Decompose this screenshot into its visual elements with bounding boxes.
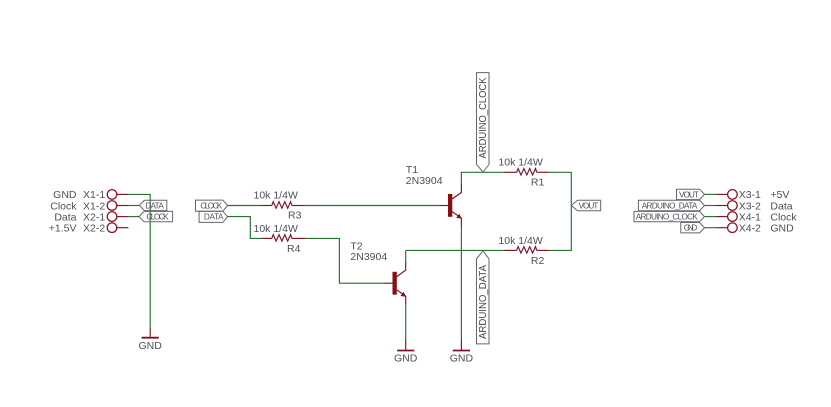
svg-text:R3: R3 (288, 209, 302, 221)
svg-text:ARDUINO_CLOCK: ARDUINO_CLOCK (477, 78, 489, 159)
svg-text:VOUT: VOUT (679, 190, 699, 199)
svg-text:DATA: DATA (204, 213, 224, 222)
svg-text:+1.5V: +1.5V (49, 223, 77, 235)
svg-text:GND: GND (450, 352, 474, 364)
svg-text:2N3904: 2N3904 (406, 175, 443, 187)
svg-text:R2: R2 (531, 255, 545, 267)
svg-text:ARDUINO_DATA: ARDUINO_DATA (477, 265, 489, 339)
svg-text:VOUT: VOUT (579, 201, 599, 210)
svg-text:10k 1/4W: 10k 1/4W (254, 223, 298, 235)
svg-text:2N3904: 2N3904 (350, 251, 387, 263)
svg-text:R1: R1 (531, 177, 545, 189)
svg-text:GND: GND (770, 223, 794, 235)
svg-text:10k 1/4W: 10k 1/4W (498, 157, 542, 169)
svg-text:R4: R4 (287, 243, 301, 255)
svg-text:X2-2: X2-2 (83, 223, 105, 235)
svg-text:DATA: DATA (145, 201, 164, 210)
svg-text:ARDUINO_CLOCK: ARDUINO_CLOCK (636, 213, 699, 222)
svg-text:CLOCK: CLOCK (200, 201, 223, 210)
svg-text:10k 1/4W: 10k 1/4W (498, 235, 542, 247)
svg-text:GND: GND (684, 224, 698, 233)
svg-text:GND: GND (139, 340, 163, 352)
svg-text:X4-2: X4-2 (739, 223, 761, 235)
svg-text:CLOCK: CLOCK (146, 213, 169, 222)
svg-text:ARDUINO_DATA: ARDUINO_DATA (642, 201, 698, 210)
svg-text:GND: GND (394, 352, 418, 364)
svg-text:10k 1/4W: 10k 1/4W (254, 189, 298, 201)
